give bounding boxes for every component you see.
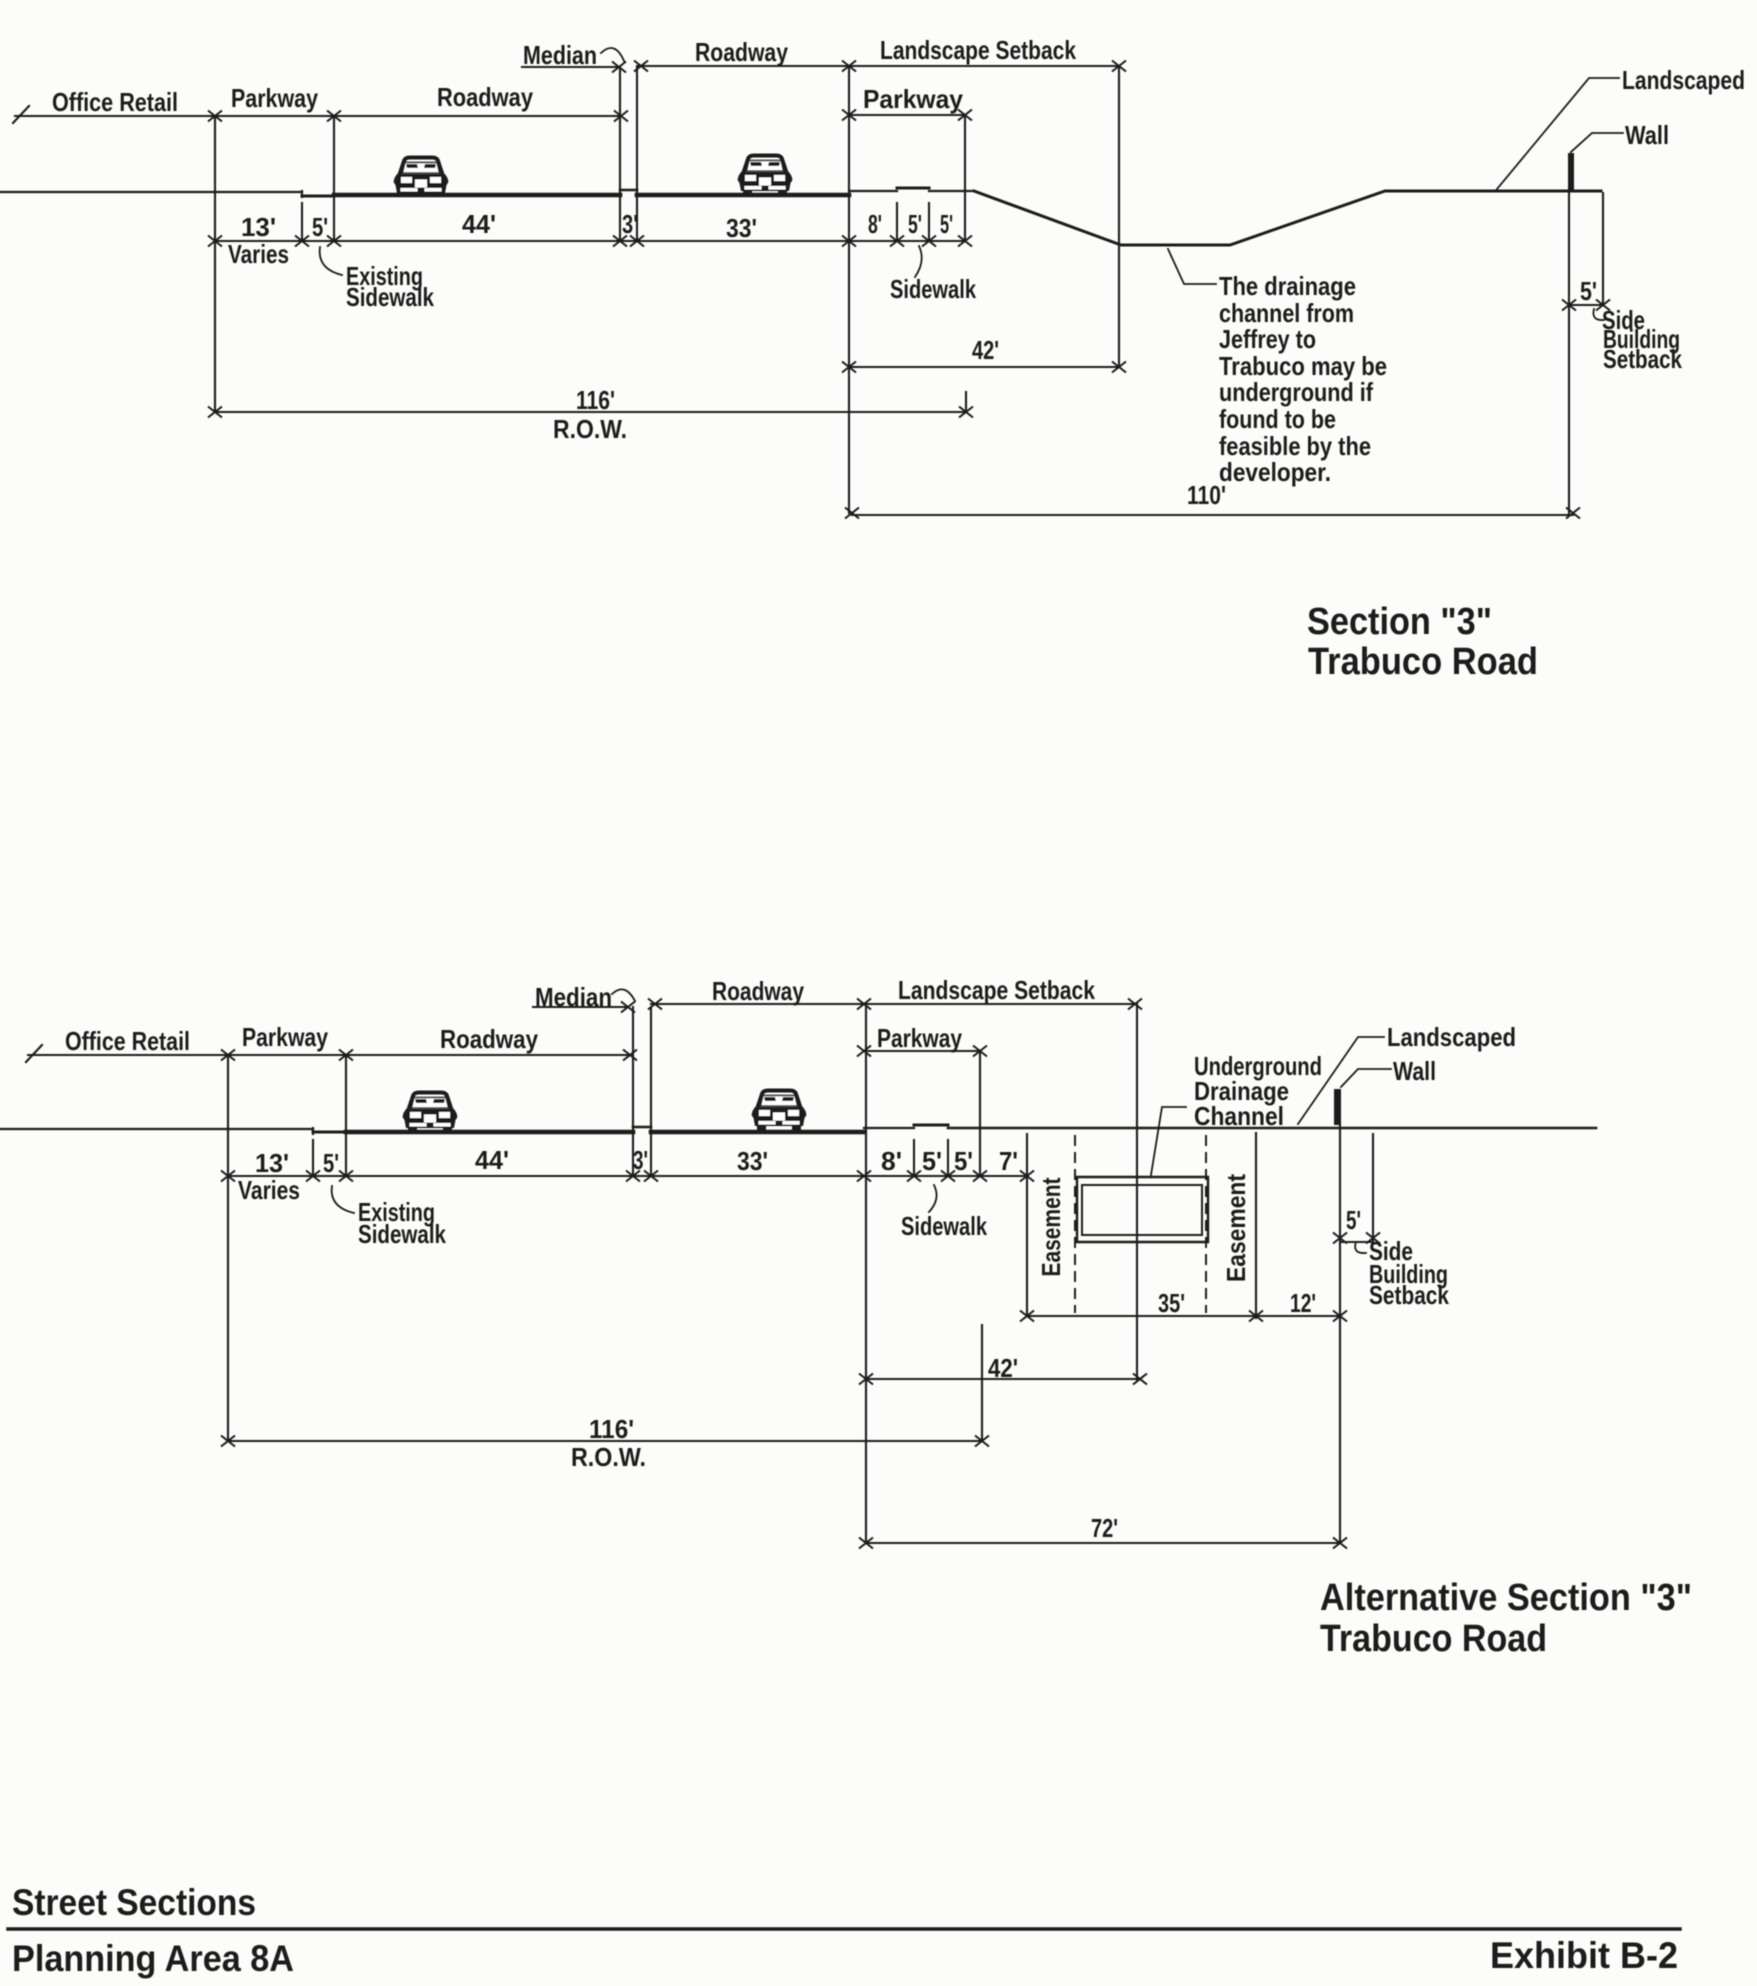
svg-text:Sidewalk: Sidewalk: [358, 1219, 446, 1249]
svg-text:Exhibit B-2: Exhibit B-2: [1490, 1935, 1678, 1976]
svg-text:42': 42': [988, 1353, 1018, 1383]
svg-text:Median: Median: [523, 40, 597, 70]
svg-text:found to be: found to be: [1219, 404, 1336, 434]
svg-text:Channel: Channel: [1194, 1101, 1284, 1131]
svg-text:Trabuco Road: Trabuco Road: [1320, 1618, 1547, 1660]
svg-text:Parkway: Parkway: [877, 1023, 962, 1053]
svg-text:35': 35': [1158, 1288, 1185, 1318]
svg-text:116': 116': [589, 1414, 634, 1444]
svg-text:Roadway: Roadway: [440, 1024, 538, 1054]
svg-text:Sidewalk: Sidewalk: [901, 1211, 987, 1241]
svg-text:Easement: Easement: [1221, 1174, 1251, 1282]
svg-text:Varies: Varies: [228, 239, 289, 269]
svg-text:Wall: Wall: [1393, 1056, 1436, 1086]
svg-text:3': 3': [622, 209, 638, 239]
svg-text:5': 5': [954, 1146, 973, 1176]
svg-text:Easement: Easement: [1036, 1177, 1066, 1276]
svg-text:7': 7': [999, 1146, 1018, 1176]
svg-text:Landscape Setback: Landscape Setback: [898, 975, 1095, 1005]
svg-text:Office Retail: Office Retail: [65, 1026, 190, 1056]
svg-text:8': 8': [881, 1146, 902, 1176]
svg-text:13': 13': [255, 1148, 289, 1178]
svg-text:33': 33': [737, 1146, 768, 1176]
svg-text:Planning Area 8A: Planning Area 8A: [12, 1938, 294, 1979]
svg-text:R.O.W.: R.O.W.: [553, 414, 627, 444]
svg-text:42': 42': [972, 335, 999, 365]
svg-text:Parkway: Parkway: [863, 84, 964, 114]
svg-text:Landscape Setback: Landscape Setback: [880, 35, 1076, 65]
svg-text:Wall: Wall: [1625, 120, 1669, 150]
svg-text:5': 5': [1346, 1205, 1361, 1235]
svg-text:Trabuco Road: Trabuco Road: [1308, 641, 1538, 683]
svg-text:5': 5': [323, 1148, 339, 1178]
svg-text:5': 5': [1580, 276, 1597, 306]
svg-text:developer.: developer.: [1219, 457, 1331, 487]
svg-text:Landscaped: Landscaped: [1622, 65, 1745, 95]
svg-text:Median: Median: [535, 982, 612, 1012]
svg-text:Varies: Varies: [238, 1175, 300, 1205]
svg-text:Jeffrey to: Jeffrey to: [1219, 324, 1316, 354]
svg-text:5': 5': [940, 209, 953, 239]
svg-text:Sidewalk: Sidewalk: [346, 282, 434, 312]
svg-text:Roadway: Roadway: [712, 976, 804, 1006]
svg-text:Setback: Setback: [1369, 1280, 1449, 1310]
svg-text:Sidewalk: Sidewalk: [890, 274, 976, 304]
svg-text:Setback: Setback: [1603, 344, 1682, 374]
svg-text:8': 8': [868, 209, 882, 239]
svg-text:Street Sections: Street Sections: [12, 1882, 256, 1923]
svg-text:Parkway: Parkway: [242, 1022, 328, 1052]
svg-text:R.O.W.: R.O.W.: [571, 1442, 646, 1472]
svg-text:3': 3': [633, 1145, 648, 1175]
svg-text:12': 12': [1290, 1288, 1316, 1318]
svg-text:5': 5': [922, 1146, 942, 1176]
svg-text:Roadway: Roadway: [437, 82, 533, 112]
svg-text:Parkway: Parkway: [231, 83, 318, 113]
svg-text:The drainage: The drainage: [1219, 271, 1356, 301]
svg-text:13': 13': [241, 212, 276, 242]
svg-text:5': 5': [908, 209, 922, 239]
svg-text:Roadway: Roadway: [695, 37, 788, 67]
svg-text:Landscaped: Landscaped: [1387, 1022, 1516, 1052]
svg-text:Section "3": Section "3": [1307, 601, 1492, 643]
svg-text:Office Retail: Office Retail: [52, 87, 178, 117]
svg-text:Alternative Section "3": Alternative Section "3": [1320, 1577, 1692, 1619]
svg-text:underground if: underground if: [1219, 377, 1373, 407]
svg-text:72': 72': [1091, 1513, 1118, 1543]
svg-text:33': 33': [726, 213, 757, 243]
svg-text:44': 44': [462, 209, 496, 239]
svg-text:116': 116': [576, 385, 615, 415]
svg-text:44': 44': [475, 1145, 509, 1175]
svg-text:5': 5': [312, 212, 328, 242]
